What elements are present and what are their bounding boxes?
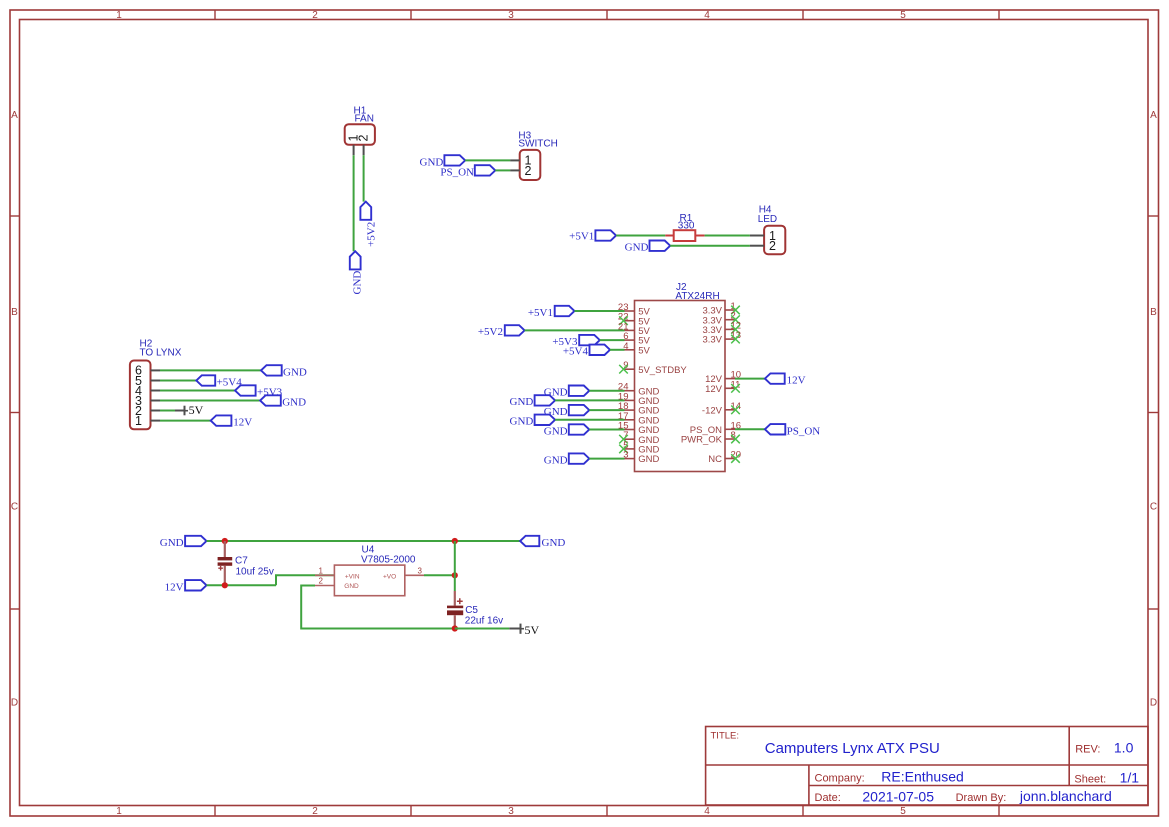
- capacitor C7 10uf 25v: [218, 541, 274, 585]
- svg-text:TITLE:: TITLE:: [711, 731, 740, 742]
- svg-text:5V_STDBY: 5V_STDBY: [638, 365, 687, 376]
- svg-text:PS_ON: PS_ON: [787, 425, 821, 437]
- wire +5V4 to J2 pin 4: [610, 349, 625, 351]
- svg-text:-12V: -12V: [702, 405, 723, 416]
- svg-text:C: C: [11, 502, 18, 513]
- wire GND to J2: [589, 390, 624, 392]
- J2 pin 1 (3.3V): [702, 301, 739, 317]
- svg-text:Date:: Date:: [815, 792, 841, 804]
- svg-text:3: 3: [508, 10, 514, 21]
- flag GND (H2 pin3): [260, 395, 306, 408]
- J2 pin 12 (3.3V): [702, 320, 741, 336]
- flag +5V1 (to J2 pin 23): [528, 306, 575, 319]
- svg-text:+5V1: +5V1: [569, 231, 594, 243]
- svg-text:Sheet:: Sheet:: [1074, 773, 1106, 785]
- flag GND (to J2, y=410.1): [544, 405, 590, 418]
- svg-text:5V: 5V: [638, 345, 650, 356]
- svg-text:2021-07-05: 2021-07-05: [862, 788, 934, 804]
- svg-text:GND: GND: [344, 583, 359, 590]
- wire GND to J2: [555, 399, 624, 401]
- flag 12V (regulator input): [165, 580, 207, 593]
- flag GND (top-right of regulator section): [520, 536, 565, 549]
- J2 pin 11 (12V): [705, 379, 740, 395]
- svg-text:12V: 12V: [233, 417, 252, 429]
- svg-text:C: C: [1150, 502, 1157, 513]
- svg-text:12V: 12V: [705, 384, 723, 395]
- svg-text:PS_ON: PS_ON: [440, 166, 474, 178]
- wire H2 pin2 to -5V supply: [160, 410, 175, 412]
- junction C5 bottom: [452, 625, 458, 631]
- svg-text:+VIN: +VIN: [345, 573, 360, 580]
- svg-text:A: A: [1150, 110, 1157, 121]
- wire +5V3 to J2 pin 6: [600, 339, 625, 341]
- J2 pin 19 (GND): [618, 391, 660, 407]
- wire R1 to H4 pin1: [705, 235, 750, 237]
- svg-text:2: 2: [312, 806, 318, 817]
- wire +5V1 to J2 pin 23: [575, 310, 625, 312]
- svg-text:+5V1: +5V1: [528, 307, 553, 319]
- svg-text:2: 2: [357, 135, 371, 142]
- flag GND (H2 pin6): [261, 365, 307, 378]
- svg-text:GND: GND: [638, 454, 659, 465]
- svg-text:2: 2: [769, 239, 776, 253]
- flag GND (to J2, y=400.4): [510, 395, 556, 408]
- flag GND (to J2, y=390.7): [544, 386, 590, 399]
- flag GND (to H4 pin2): [625, 241, 671, 254]
- svg-text:GND: GND: [283, 366, 307, 378]
- flag GND (to J2, y=458.6): [544, 453, 590, 466]
- svg-text:1: 1: [135, 414, 142, 428]
- flag GND (to H3 pin1): [420, 155, 466, 168]
- svg-text:4: 4: [704, 806, 710, 817]
- svg-text:4: 4: [704, 10, 710, 21]
- svg-text:REV:: REV:: [1075, 743, 1100, 755]
- svg-text:3: 3: [508, 806, 514, 817]
- svg-text:1/1: 1/1: [1120, 769, 1140, 785]
- connector J2 ATX24RH: [635, 282, 726, 471]
- J2 pin 4 (5V): [623, 341, 650, 357]
- J2 pin 20 (NC): [708, 450, 741, 466]
- svg-text:C5: C5: [465, 605, 478, 616]
- svg-text:3.3V: 3.3V: [702, 335, 722, 346]
- wire H2 pin6 to GND: [160, 369, 261, 371]
- svg-text:V7805-2000: V7805-2000: [361, 554, 416, 565]
- J2 pin 21 (5V): [618, 321, 651, 337]
- wire GND to H4 pin2: [670, 245, 750, 247]
- svg-text:+5V2: +5V2: [478, 326, 503, 338]
- J2 pin 6 (5V): [623, 331, 650, 347]
- junction C7 top: [222, 538, 228, 544]
- svg-text:GND: GND: [510, 396, 534, 408]
- title block: [706, 727, 1148, 806]
- J2 pin 13 (3.3V): [702, 330, 741, 346]
- wire ground rail to +5V supply: [455, 628, 510, 630]
- J2 pin 14 (-12V): [702, 401, 741, 417]
- flag PS_ON (J2 pin 16): [765, 424, 820, 437]
- J2 pin 7 (GND): [619, 430, 659, 446]
- svg-text:GND: GND: [544, 425, 568, 437]
- flag GND (H1 pin1): [350, 251, 364, 294]
- wire U4 pin2 to ground rail: [301, 586, 455, 629]
- flag 12V (H2 pin1): [211, 415, 253, 428]
- svg-text:GND: GND: [625, 242, 649, 254]
- svg-text:FAN: FAN: [355, 113, 374, 124]
- svg-text:2: 2: [312, 10, 318, 21]
- flag +5V3 (H2 pin4): [235, 385, 283, 398]
- svg-text:12V: 12V: [165, 581, 184, 593]
- J2 pin 5 (GND): [619, 440, 659, 456]
- flag GND (top-left of regulator section): [160, 536, 207, 549]
- wire H2 pin1 to 12V: [160, 420, 211, 422]
- J2 pin 3 (GND): [623, 450, 659, 466]
- J2 pin 22 (5V): [618, 312, 651, 328]
- flag +5V4 (H2 pin5): [196, 375, 242, 388]
- junction C7 bottom: [222, 582, 228, 588]
- wire GND to J2: [589, 458, 624, 460]
- wire H2 pin3 to GND: [160, 400, 260, 402]
- wire 12V step up to U4 pin1: [276, 575, 334, 585]
- wire C5 branch vertical: [454, 541, 456, 591]
- flag 12V (J2 pin 10): [765, 373, 806, 386]
- svg-text:1: 1: [319, 566, 324, 575]
- J2 pin 16 (PS_ON): [690, 420, 741, 436]
- svg-text:A: A: [11, 110, 18, 121]
- svg-text:+5V4: +5V4: [563, 346, 589, 358]
- wire H1 pin1 to GND: [353, 155, 355, 251]
- regulator U4 V7805-2000: [315, 545, 424, 596]
- svg-text:B: B: [1150, 307, 1157, 318]
- svg-text:RE:Enthused: RE:Enthused: [881, 768, 964, 784]
- supply -5V (H2 pin2): [175, 403, 204, 417]
- svg-text:3: 3: [418, 566, 423, 575]
- connector H2 TO LYNX: [130, 338, 182, 429]
- wire H1 pin2 to +5V2: [363, 155, 365, 201]
- J2 pin 23 (5V): [618, 302, 651, 318]
- wire GND to J2: [589, 429, 624, 431]
- J2 pin 9 (5V_STDBY): [619, 360, 687, 376]
- capacitor C5 22uf 16v: [447, 591, 503, 629]
- flag +5V2 (H1 pin2): [360, 202, 377, 247]
- flag +5V2 (to J2 pin 21): [478, 325, 525, 338]
- svg-text:10uf 25v: 10uf 25v: [236, 566, 274, 577]
- wire J2 pin 16 to PS_ON: [735, 428, 765, 430]
- svg-text:Company:: Company:: [815, 773, 865, 785]
- wire GND to J2: [555, 419, 624, 421]
- svg-text:NC: NC: [708, 454, 722, 465]
- resistor R1 330: [665, 213, 704, 241]
- svg-text:C7: C7: [235, 555, 248, 566]
- svg-text:22uf 16v: 22uf 16v: [465, 616, 503, 627]
- flag +5V4 (to J2 pin 4): [563, 345, 610, 358]
- J2 pin 15 (GND): [618, 421, 660, 437]
- svg-text:1.0: 1.0: [1114, 739, 1134, 755]
- wire U4 pin3 to output node: [424, 574, 455, 576]
- connector H3 SWITCH: [510, 130, 558, 180]
- svg-text:Camputers Lynx ATX PSU: Camputers Lynx ATX PSU: [765, 740, 940, 757]
- wire GND top rail: [207, 540, 521, 542]
- J2 pin 17 (GND): [618, 411, 660, 427]
- svg-text:B: B: [11, 307, 18, 318]
- svg-text:1: 1: [116, 10, 122, 21]
- junction C5 branch top: [452, 538, 458, 544]
- svg-text:GND: GND: [160, 537, 184, 549]
- flag GND (to J2, y=429.5): [544, 424, 590, 437]
- flag +5V1 (to R1): [569, 230, 616, 242]
- svg-text:PWR_OK: PWR_OK: [681, 435, 723, 446]
- J2 pin 18 (GND): [618, 401, 660, 417]
- wire 12V rail: [207, 584, 277, 586]
- J2 pin 10 (12V): [705, 370, 741, 386]
- svg-text:+VO: +VO: [383, 573, 396, 580]
- junction U4 output node: [452, 572, 458, 578]
- svg-text:TO LYNX: TO LYNX: [140, 348, 182, 359]
- svg-text:D: D: [1150, 698, 1157, 709]
- J2 pin 2 (3.3V): [702, 311, 739, 327]
- svg-text:SWITCH: SWITCH: [518, 139, 557, 150]
- wire GND to H3 pin1: [465, 159, 510, 161]
- svg-text:GND: GND: [542, 537, 566, 549]
- wire J2 pin 10 to 12V: [735, 378, 765, 380]
- svg-text:Drawn By:: Drawn By:: [956, 792, 1007, 804]
- svg-text:+5V2: +5V2: [366, 222, 378, 247]
- wire GND to J2: [589, 409, 624, 411]
- svg-text:5: 5: [900, 806, 906, 817]
- J2 pin 8 (PWR_OK): [681, 430, 740, 446]
- svg-text:2: 2: [525, 164, 532, 178]
- svg-text:5V: 5V: [525, 623, 540, 637]
- svg-text:GND: GND: [282, 397, 306, 409]
- svg-text:12V: 12V: [787, 375, 806, 387]
- svg-text:2: 2: [319, 577, 324, 586]
- supply +5V (regulator output): [509, 623, 539, 637]
- svg-text:GND: GND: [351, 271, 363, 295]
- svg-text:LED: LED: [758, 214, 777, 225]
- wire H2 pin4 to +5V3: [160, 390, 235, 392]
- flag +5V3 (to J2 pin 6): [552, 335, 599, 348]
- wire H2 pin5 to +5V4: [160, 380, 196, 382]
- connector H4 LED: [750, 205, 785, 255]
- flag PS_ON (to H3 pin2): [440, 165, 495, 178]
- svg-text:5V: 5V: [189, 403, 204, 417]
- svg-text:GND: GND: [544, 454, 568, 466]
- J2 pin 24 (GND): [618, 382, 660, 398]
- wire PS_ON to H3 pin2: [495, 169, 510, 171]
- wire +5V1 to R1: [616, 235, 665, 237]
- svg-text:jonn.blanchard: jonn.blanchard: [1019, 788, 1112, 804]
- svg-text:1: 1: [116, 806, 122, 817]
- svg-text:GND: GND: [510, 416, 534, 428]
- wire +5V2 to J2 pin 21: [525, 329, 625, 331]
- svg-text:5: 5: [900, 10, 906, 21]
- flag GND (to J2, y=419.8): [510, 415, 556, 428]
- svg-text:D: D: [11, 698, 18, 709]
- connector H1 FAN: [345, 106, 375, 156]
